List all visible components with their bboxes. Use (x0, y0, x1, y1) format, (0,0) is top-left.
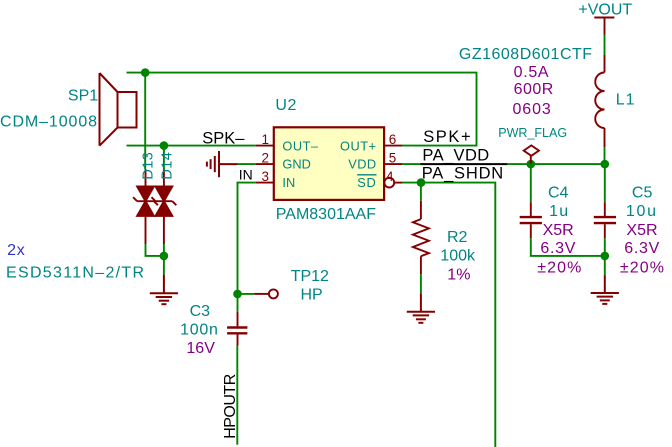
svg-text:16V: 16V (186, 340, 215, 357)
svg-text:VDD: VDD (348, 156, 376, 171)
svg-text:ESD5311N–2/TR: ESD5311N–2/TR (6, 264, 145, 281)
svg-text:D13: D13 (140, 152, 156, 180)
svg-text:3: 3 (261, 169, 269, 184)
svg-text:1%: 1% (447, 266, 470, 283)
svg-text:5: 5 (389, 150, 397, 165)
svg-text:SD: SD (357, 175, 376, 190)
svg-text:L1: L1 (616, 91, 636, 108)
svg-text:TP12: TP12 (291, 268, 329, 285)
svg-text:GND: GND (282, 156, 310, 171)
svg-text:PA_VDD: PA_VDD (422, 147, 489, 165)
svg-text:GZ1608D601CTF: GZ1608D601CTF (459, 46, 593, 63)
svg-text:6: 6 (389, 132, 397, 147)
svg-text:C4: C4 (548, 185, 569, 202)
svg-text:C5: C5 (632, 185, 653, 202)
svg-text:U2: U2 (275, 97, 297, 114)
svg-text:6.3V: 6.3V (624, 240, 660, 257)
svg-text:IN: IN (282, 175, 295, 190)
svg-text:X5R: X5R (626, 222, 657, 239)
svg-text:1: 1 (261, 132, 269, 147)
svg-text:PAM8301AAF: PAM8301AAF (276, 206, 376, 223)
svg-text:SP1: SP1 (68, 87, 98, 104)
svg-text:PA_SHDN: PA_SHDN (422, 164, 504, 182)
svg-text:±20%: ±20% (537, 259, 582, 276)
svg-text:OUT+: OUT+ (340, 139, 377, 154)
svg-text:±20%: ±20% (620, 259, 665, 276)
svg-text:1u: 1u (549, 203, 569, 220)
svg-text:R2: R2 (447, 229, 468, 246)
svg-text:100k: 100k (440, 248, 476, 265)
svg-text:+VOUT: +VOUT (578, 1, 632, 18)
svg-text:IN: IN (239, 166, 253, 182)
svg-text:10u: 10u (626, 203, 658, 220)
svg-text:X5R: X5R (543, 222, 574, 239)
svg-text:SPK–: SPK– (202, 129, 245, 147)
svg-text:0.5A: 0.5A (514, 64, 550, 81)
svg-text:HPOUTR: HPOUTR (222, 374, 239, 439)
svg-text:SPK+: SPK+ (423, 128, 472, 146)
svg-text:PWR_FLAG: PWR_FLAG (498, 126, 567, 140)
svg-text:600R: 600R (514, 81, 554, 98)
svg-text:100n: 100n (180, 321, 219, 338)
svg-text:D14: D14 (159, 152, 175, 180)
svg-text:2x: 2x (7, 242, 26, 259)
svg-text:0603: 0603 (513, 101, 552, 118)
svg-text:OUT–: OUT– (282, 139, 319, 154)
svg-text:2: 2 (261, 150, 269, 165)
svg-text:CDM–10008: CDM–10008 (0, 113, 98, 130)
svg-text:HP: HP (301, 286, 323, 303)
svg-text:6.3V: 6.3V (540, 240, 576, 257)
svg-text:C3: C3 (190, 303, 211, 320)
svg-text:4: 4 (386, 169, 394, 184)
